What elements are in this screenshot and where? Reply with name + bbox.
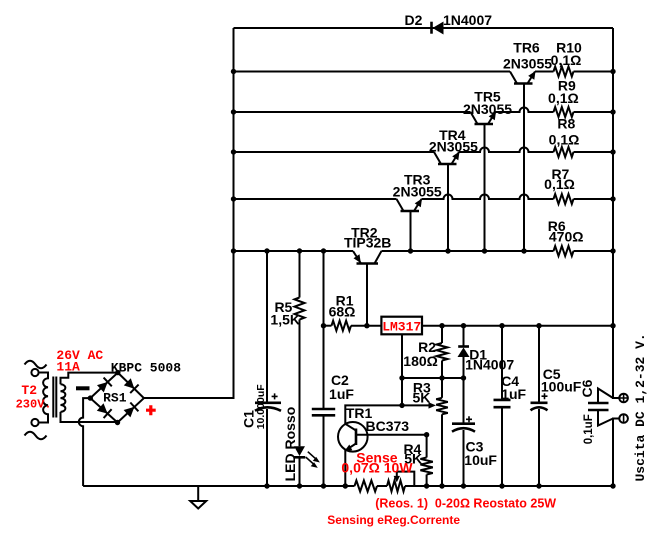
wire TR2 base to LM317 input node <box>366 264 368 326</box>
svg-text:0,1uF: 0,1uF <box>583 414 595 444</box>
transformer T2 primary winding <box>39 373 48 423</box>
wire R5 to LED <box>299 320 301 447</box>
wire TR1 collector to ADJ <box>345 405 402 423</box>
bridge diode bottom-left <box>97 403 112 418</box>
svg-text:TIP32B: TIP32B <box>344 235 391 251</box>
wire R5 top lead <box>299 251 301 298</box>
svg-text:10uF: 10uF <box>464 452 497 468</box>
resistor R8 0,1Ω body <box>554 147 574 157</box>
svg-text:RS1: RS1 <box>103 391 127 406</box>
svg-text:0,1Ω: 0,1Ω <box>544 176 575 192</box>
wire C5 bottom lead <box>538 409 540 486</box>
transistor TR2 TIP32B <box>353 251 382 264</box>
svg-text:1,5K: 1,5K <box>270 312 300 328</box>
svg-text:D2: D2 <box>405 12 423 28</box>
wire R7 to right rail <box>574 198 614 200</box>
wire right rail upper (output +) <box>613 28 619 398</box>
AC source squiggle bottom <box>25 432 47 440</box>
rheostat wiper arrow <box>394 472 415 486</box>
svg-text:5K: 5K <box>412 389 430 405</box>
wire R3 top lead <box>441 378 443 398</box>
wire C2 bottom lead <box>323 415 325 486</box>
wire R8 to right rail <box>574 151 614 153</box>
resistor Sense 0,07Ω body <box>355 481 378 492</box>
wire C3 top lead <box>463 378 465 424</box>
svg-text:2N3055: 2N3055 <box>463 101 512 117</box>
wire secondary bottom AC lead <box>61 412 118 422</box>
wire R9 to right rail <box>574 111 614 113</box>
wire D1 top lead <box>463 326 465 347</box>
svg-text:2N3055: 2N3055 <box>429 139 478 155</box>
wire LM317 ADJ pin <box>401 334 403 405</box>
svg-text:180Ω: 180Ω <box>403 353 438 369</box>
ground <box>190 486 206 509</box>
wire ground rail right segment <box>405 485 613 487</box>
resistor R10 0,1Ω body <box>554 67 574 77</box>
capacitor C6 0,1uF body <box>588 389 613 426</box>
capacitor C3 10uF body <box>452 416 475 431</box>
svg-text:T2: T2 <box>21 383 37 398</box>
resistor R1 68Ω body <box>332 321 351 331</box>
AC source squiggle top <box>25 361 47 369</box>
wire R3 bottom lead <box>441 414 443 486</box>
wire TR3 emitter to R7 <box>422 195 554 200</box>
wire rail6 left (unreg + to TR2 emitter) <box>234 250 354 252</box>
svg-text:1N4007: 1N4007 <box>465 357 514 373</box>
bridge diode bottom-right <box>124 403 139 418</box>
LED Rosso <box>294 446 320 468</box>
transistor TR6 2N3055 <box>510 71 536 251</box>
svg-text:230V.: 230V. <box>16 397 52 411</box>
svg-text:0,1Ω: 0,1Ω <box>551 52 582 68</box>
wire R4 bottom lead <box>426 475 428 487</box>
wire rail to TR4 collector <box>234 151 435 153</box>
wire C5 top lead <box>538 326 540 403</box>
wire C1 bottom lead <box>266 409 268 486</box>
svg-text:2N3055: 2N3055 <box>393 183 442 199</box>
wire C4 bottom lead <box>501 407 503 486</box>
wire TR5 emitter to R9 <box>496 108 554 113</box>
svg-text:1uF: 1uF <box>329 386 354 402</box>
wire R3 wiper arm <box>402 404 430 406</box>
terminal output + <box>619 394 628 403</box>
svg-text:Sensing eReg.Corrente: Sensing eReg.Corrente <box>327 513 460 527</box>
wire C2/R1 node vertical <box>323 251 325 409</box>
svg-text:0,07Ω 10W: 0,07Ω 10W <box>341 460 413 476</box>
capacitor C5 100uF body <box>531 393 548 410</box>
svg-text:0,1Ω: 0,1Ω <box>548 90 579 106</box>
regulator U1 LM317 <box>381 317 422 335</box>
transistor TR3 2N3055 <box>397 199 423 252</box>
wire D1 anode to ADJ node <box>463 357 465 378</box>
transistor TR4 2N3055 <box>434 152 460 252</box>
wire ADJ node horizontal <box>402 377 464 379</box>
rheostat Reos.1 body <box>387 481 405 492</box>
minus sign at bridge <box>76 386 90 390</box>
svg-text:1uF: 1uF <box>501 386 526 402</box>
wire between sense and rheostat <box>377 485 387 487</box>
svg-text:LM317: LM317 <box>382 319 421 334</box>
wire rail to TR5 collector <box>234 111 471 113</box>
wire bridge minus to ground rail <box>79 398 91 486</box>
resistor R3 5K body <box>436 398 448 415</box>
resistor R2 180Ω body <box>437 343 448 361</box>
resistor R9 0,1Ω body <box>554 107 574 117</box>
wire R6 to right rail <box>574 250 614 252</box>
svg-text:Uscita DC 1,2-32 V.: Uscita DC 1,2-32 V. <box>633 333 648 481</box>
wire C4 top lead <box>501 326 503 400</box>
svg-text:0,1Ω: 0,1Ω <box>549 131 580 147</box>
svg-text:KBPC 5008: KBPC 5008 <box>111 361 181 376</box>
svg-text:LED Rosso: LED Rosso <box>282 407 298 482</box>
wire TR6 emitter to R10 <box>535 71 554 73</box>
resistor R5 1,5K body <box>295 298 305 320</box>
plus sign at bridge <box>146 405 156 415</box>
transformer T2 core <box>53 377 56 418</box>
wire R2 top lead <box>441 326 443 343</box>
transistor TR1 BC373 <box>338 422 368 452</box>
wire R1 left lead <box>324 325 332 327</box>
diode D2 1N4007 <box>432 22 444 35</box>
wire R4 top lead <box>426 435 428 458</box>
terminal T2 primary bottom <box>31 419 38 426</box>
svg-text:100uF: 100uF <box>541 379 582 395</box>
wire R1 to LM317 input <box>351 325 381 327</box>
capacitor C2 1uF body <box>312 409 335 415</box>
svg-text:11A: 11A <box>56 359 80 374</box>
wire top rail (unregulated + to output via D2) <box>234 27 614 29</box>
wire rail to TR3 collector <box>234 198 397 200</box>
wire TR1 emitter to ground rail <box>344 450 346 487</box>
capacitor C1 10.000uF body <box>255 393 281 410</box>
wire left rail (+ from bridge) <box>144 28 234 398</box>
capacitor C4 1uF body <box>494 400 511 407</box>
wire TR4 emitter to R8 <box>459 148 554 153</box>
svg-text:2N3055: 2N3055 <box>503 55 552 71</box>
wire rail6 right (TR2 collector base-bus to R6) <box>382 250 554 252</box>
resistor R7 0,1Ω body <box>554 194 574 204</box>
svg-text:10.000uF: 10.000uF <box>255 384 267 430</box>
resistor R4 5K body <box>420 458 432 475</box>
wire C3 bottom lead <box>463 430 465 486</box>
terminal T2 primary top <box>31 369 38 376</box>
wire R10 to right rail <box>574 71 614 73</box>
wire C1 top lead <box>266 251 268 403</box>
wire ground rail left segment <box>83 485 354 487</box>
svg-text:470Ω: 470Ω <box>549 228 584 244</box>
wire LM317 output to right rail <box>422 325 613 327</box>
resistor R6 470Ω body <box>554 246 574 256</box>
svg-text:C6: C6 <box>579 379 595 397</box>
bridge RS1 KBPC5008 outline <box>90 373 144 423</box>
transformer T2 secondary winding <box>61 384 66 412</box>
svg-text:R8: R8 <box>557 115 575 131</box>
wire LED to ground rail <box>299 457 301 486</box>
wire R2 bottom lead <box>441 361 443 379</box>
wire right rail lower (output - to ground) <box>613 419 619 487</box>
svg-text:BC373: BC373 <box>366 418 410 434</box>
bridge diode top-left <box>97 378 112 393</box>
terminal output - <box>619 414 628 423</box>
transistor TR5 2N3055 <box>471 112 497 252</box>
svg-text:1N4007: 1N4007 <box>443 12 492 28</box>
bridge diode top-right <box>124 378 139 393</box>
svg-text:(Reos. 1) 0-20Ω Reostato 25W: (Reos. 1) 0-20Ω Reostato 25W <box>375 497 556 511</box>
diode D1 1N4007 <box>458 347 470 358</box>
wire TR1 base to R4 <box>356 434 427 436</box>
wire secondary top AC lead <box>61 373 118 385</box>
svg-text:68Ω: 68Ω <box>329 303 356 319</box>
svg-text:TR6: TR6 <box>513 39 540 55</box>
wire rail to TR6 collector <box>234 71 511 73</box>
